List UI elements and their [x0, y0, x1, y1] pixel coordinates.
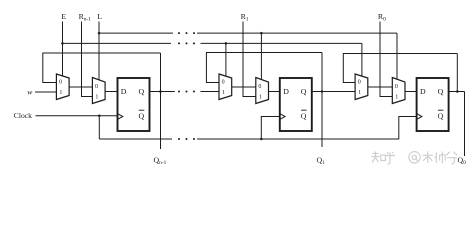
svg-text:R1: R1	[241, 12, 249, 23]
mux U4 (L select, stage 2)	[256, 78, 269, 104]
svg-text:1: 1	[222, 90, 225, 96]
wire mux E1 to mux L1	[68, 86, 94, 88]
wire L rail left segment	[99, 32, 173, 34]
junction node E2 select	[225, 42, 228, 45]
svg-text:Qn-1: Qn-1	[154, 156, 167, 167]
mux U6 (L select, stage 3)	[392, 78, 405, 104]
mux U2 (L select, stage 1)	[92, 78, 105, 104]
wire FF3 Q output	[448, 91, 465, 93]
ellipsis dots E rail	[178, 42, 180, 44]
junction node FF2 clock tap	[260, 138, 263, 141]
ellipsis dots clock rail	[178, 138, 180, 140]
wire E2 select drop	[225, 43, 227, 77]
watermark zhihu	[372, 151, 457, 164]
svg-text:D: D	[121, 87, 127, 96]
wire R0 input vertical	[380, 22, 394, 97]
wire clock input	[36, 115, 120, 117]
svg-text:D: D	[283, 87, 289, 96]
svg-text:w: w	[27, 87, 33, 96]
ellipsis dots L rail	[178, 32, 180, 34]
svg-text:Q: Q	[301, 87, 307, 96]
svg-text:1: 1	[59, 90, 62, 96]
wire stage3 feedback rail	[343, 54, 457, 83]
wire FF2 clock tap	[261, 117, 281, 140]
junction node stage1 Q	[159, 90, 162, 93]
flip-flop FF3	[417, 78, 449, 131]
ellipsis dots data wire	[178, 91, 180, 93]
svg-text:Clock: Clock	[14, 111, 32, 120]
wire E input vertical	[62, 22, 64, 78]
wire stage1 Q vertical	[160, 53, 162, 149]
svg-text:L: L	[97, 12, 102, 21]
wire E rail left segment	[63, 42, 172, 44]
svg-text:E: E	[61, 12, 66, 21]
wire L rail right segment	[197, 32, 397, 34]
wire clock rail right segment	[197, 117, 418, 140]
svg-text:Q: Q	[438, 111, 444, 120]
wire stage2 Q vertical	[321, 53, 323, 148]
svg-text:1: 1	[259, 94, 262, 100]
wire stage2 feedback rail	[206, 53, 322, 83]
wire mux E2 to mux L2	[231, 86, 258, 88]
junction node E rail start	[61, 42, 64, 45]
svg-text:Q0: Q0	[458, 156, 467, 167]
junction node L rail start	[98, 32, 101, 35]
svg-text:0: 0	[395, 84, 398, 90]
mux U1 (E select, stage 1)	[56, 74, 69, 100]
svg-text:0: 0	[222, 80, 225, 86]
wire shift data into mux E2	[201, 91, 221, 93]
wire E rail right segment	[201, 42, 362, 44]
wire L3 select drop	[396, 33, 398, 81]
svg-text:Q1: Q1	[317, 156, 326, 167]
svg-text:Q: Q	[438, 87, 444, 96]
wire mux E3 to mux L3	[367, 86, 394, 88]
wire R1 input vertical	[243, 22, 258, 97]
wire mux L2 to FF2 D	[267, 91, 282, 93]
svg-text:Rn-1: Rn-1	[79, 12, 92, 23]
svg-text:0: 0	[358, 80, 361, 86]
wire w input	[35, 91, 58, 93]
wire clock rail left segment	[99, 138, 172, 140]
wire clock drop	[98, 116, 100, 139]
svg-text:0: 0	[59, 80, 62, 86]
wire FF2 Q output	[311, 91, 357, 93]
svg-text:Q: Q	[301, 111, 307, 120]
wire FF1 Q output	[149, 91, 175, 93]
wire Rn-1 input vertical	[82, 22, 95, 97]
svg-text:Q: Q	[139, 111, 145, 120]
wire L input vertical	[98, 22, 100, 82]
junction node clock	[98, 114, 101, 117]
wire mux L3 to FF3 D	[404, 91, 419, 93]
junction node stage2 Q	[321, 90, 324, 93]
svg-text:1: 1	[395, 94, 398, 100]
svg-text:Q: Q	[139, 87, 145, 96]
mux U3 (E select, stage 2)	[219, 74, 232, 100]
wire L2 select drop	[260, 33, 262, 81]
mux U5 (E select, stage 3)	[355, 74, 368, 100]
svg-text:0: 0	[95, 84, 98, 90]
svg-text:1: 1	[358, 90, 361, 96]
flip-flop FF1	[118, 78, 150, 131]
svg-text:0: 0	[258, 84, 261, 90]
svg-text:D: D	[420, 87, 426, 96]
wire Q0 output drop	[464, 92, 466, 157]
wire stage1 feedback rail	[43, 53, 161, 83]
junction node stage3 Q	[456, 90, 459, 93]
flip-flop FF2	[280, 78, 312, 131]
wire mux L1 to FF1 D	[104, 91, 120, 93]
wire stage3 feedback riser	[456, 54, 458, 92]
svg-text:1: 1	[95, 94, 98, 100]
svg-text:R0: R0	[378, 12, 386, 23]
junction node L2 select	[260, 32, 263, 35]
wire E3 select drop	[361, 43, 363, 77]
